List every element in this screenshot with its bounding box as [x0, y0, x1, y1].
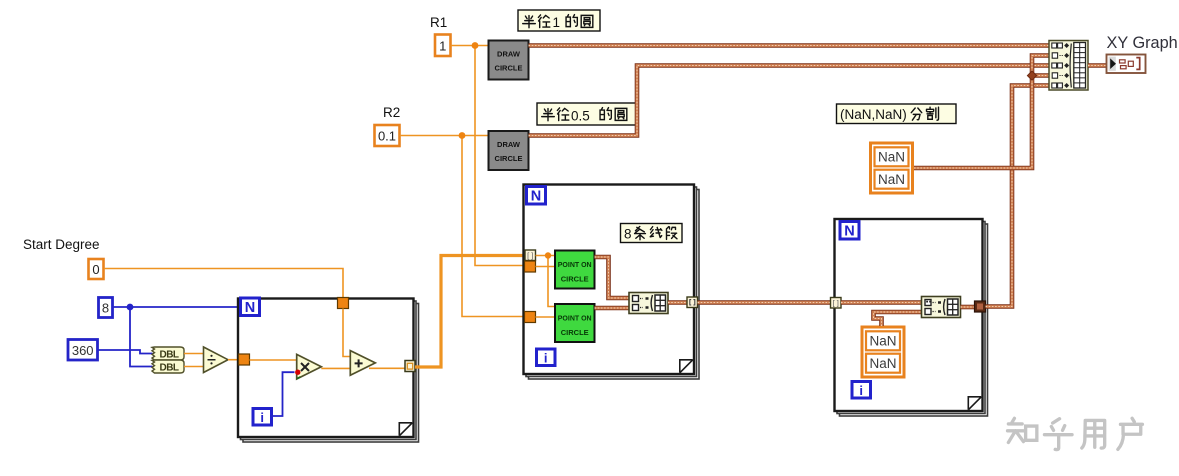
svg-text:1: 1 [553, 15, 561, 30]
divide function [204, 347, 229, 373]
wire segments array loop2 to loop3 [698, 300, 832, 305]
wire circle2 cluster array to build array input3 [529, 66, 1050, 136]
wire 360 to DBL convert 1 [98, 350, 153, 354]
svg-text:i: i [859, 383, 863, 398]
wire NaN cluster to build array loop3 [874, 312, 922, 326]
label "半径0.5 的圆" [537, 103, 636, 125]
wire 8 to N terminal [113, 306, 242, 308]
label "(NaN,NaN) 分割" [837, 104, 957, 124]
constant 0 (Start Degree, DBL) [89, 259, 104, 279]
wire bundle to loop2 output tunnel [668, 300, 688, 305]
wire point1 to bundle [595, 257, 630, 298]
iteration terminal i of loop1 [253, 409, 272, 426]
iteration terminal i of loop2 [537, 349, 556, 366]
loop2 output tunnel (indexing) [687, 297, 698, 308]
wire add to output tunnel [369, 367, 405, 369]
constant 360 (I32) [68, 340, 98, 361]
wire DBL2 to divide [184, 366, 204, 368]
coercion DBL convert 2 [152, 360, 184, 373]
wire top tunnel to add input [343, 309, 351, 357]
iteration terminal i of loop3 [852, 382, 871, 399]
svg-text:[ ]: [ ] [833, 299, 839, 308]
label "8条线段" [621, 224, 683, 243]
junction on NaN wire [1027, 71, 1036, 80]
svg-text:360: 360 [72, 343, 94, 358]
svg-text:0: 0 [92, 262, 99, 277]
for-loop structure loop2 (stacked pages) [524, 185, 700, 380]
loop count terminal N of loop1 [241, 298, 260, 316]
wire R2 tunnel to point2 [536, 316, 556, 318]
constant 1 (R1, DBL) [435, 35, 451, 57]
wire build array to XY Graph [1088, 63, 1107, 68]
tunnel loop2 R2 input tunnel [525, 312, 536, 323]
wire tunnel to multiply [250, 359, 298, 361]
subVI DRAW CIRCLE 1 [489, 41, 529, 80]
add function [350, 351, 375, 376]
wire angle branch to point2 [548, 256, 555, 307]
svg-text:8: 8 [624, 227, 632, 242]
svg-text:N: N [531, 189, 541, 205]
wire loop3 output to build array input5 [986, 86, 1050, 307]
wire segment to build array loop3 [841, 300, 922, 305]
multiply function [297, 354, 322, 379]
constant 0.1 (R2, DBL) [375, 125, 400, 146]
coercion DBL convert 1 [152, 347, 184, 360]
tunnel loop1 top input tunnel (start degree) [338, 298, 349, 309]
coercion dot (red) at multiply input [295, 370, 300, 375]
tunnel loop2 R1 input tunnel [525, 261, 536, 272]
wire circle1 cluster array to build array input1 [529, 43, 1050, 48]
svg-text:XY Graph: XY Graph [1107, 34, 1178, 52]
wire R1 to draw circle 1 [451, 45, 489, 47]
wire Start Degree to loop1 top tunnel [104, 269, 343, 300]
XY Graph indicator terminal [1107, 55, 1146, 74]
constant 8 (I32) [99, 298, 113, 318]
watermark 知乎用户 [1008, 418, 1143, 449]
svg-text:Start Degree: Start Degree [23, 237, 100, 252]
auto-indexing tunnel loop3 segment array input [831, 298, 842, 309]
wire 8 branch to DBL convert 2 [130, 307, 153, 367]
junction on 8 wire [127, 304, 134, 311]
svg-text:R1: R1 [430, 15, 447, 30]
bundle (build xy point cluster) loop2 [629, 293, 668, 314]
wire multiply to add [321, 367, 350, 369]
wire R1 tunnel to point1 [536, 266, 556, 268]
wire DBL1 to divide [184, 353, 204, 355]
label "半径1 的圆" [518, 10, 600, 31]
svg-text:R2: R2 [383, 105, 400, 120]
wire NaN branch to build array input4 [1032, 73, 1049, 78]
svg-text:8: 8 [102, 301, 109, 316]
svg-text:1: 1 [439, 39, 446, 54]
junction on angle wire [545, 252, 551, 258]
wire NaN cluster to build array input2 [914, 56, 1049, 169]
svg-text:i: i [260, 410, 264, 425]
subVI POINT ON CIRCLE 1 [555, 251, 595, 289]
loop count terminal N of loop3 [840, 222, 859, 240]
for-loop structure loop1 (stacked pages) [238, 299, 419, 443]
junction on R1 wire [472, 42, 479, 49]
wire build array to loop3 output tunnel [961, 305, 976, 310]
cluster constant NaN,NaN (loop3) [862, 327, 904, 377]
svg-text:(NaN,NaN): (NaN,NaN) [840, 107, 907, 122]
auto-indexing tunnel loop2 angle array input [525, 250, 536, 261]
cluster constant NaN,NaN (top) [871, 143, 913, 193]
tunnel loop1 left input tunnel [239, 354, 250, 365]
wire R2 to draw circle 2 [400, 135, 489, 137]
svg-text:N: N [844, 224, 854, 240]
build array (append NaN) loop3 [922, 297, 961, 318]
wire R2 branch to loop2 tunnel [462, 136, 525, 317]
svg-text:[ ]: [ ] [527, 251, 533, 260]
subVI POINT ON CIRCLE 2 [555, 304, 595, 342]
wire angle array loop1 to loop2 (thick) [415, 256, 525, 368]
loop count terminal N of loop2 [527, 187, 546, 205]
for-loop structure loop3 (stacked pages) [835, 219, 988, 416]
subVI DRAW CIRCLE 2 [489, 131, 529, 170]
svg-text:0.5: 0.5 [571, 109, 590, 124]
svg-text:0.1: 0.1 [378, 129, 396, 144]
wire R1 branch to loop2 tunnel [475, 46, 525, 266]
wire i to multiply [272, 372, 295, 416]
loop1 output tunnel (indexing) [405, 361, 415, 372]
wire angle to point1 [536, 255, 556, 257]
junction on R2 wire [459, 132, 466, 139]
build array (5 inputs, interleave) [1049, 41, 1088, 91]
loop3 output tunnel [975, 301, 986, 312]
svg-text:i: i [544, 351, 548, 366]
wire point2 to bundle [595, 306, 630, 311]
svg-text:N: N [245, 300, 255, 316]
wire divide to loop1 tunnel [228, 359, 240, 361]
